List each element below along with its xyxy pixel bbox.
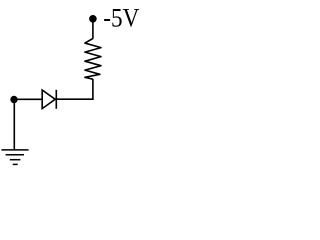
resistor R (zigzag) bbox=[85, 39, 101, 80]
wire: resistor bottom, down and left to diode cathode bbox=[57, 79, 93, 99]
node dot: junction at left bbox=[10, 96, 17, 103]
wire: left node down to ground bbox=[13, 99, 15, 149]
wire: left node to diode anode bbox=[14, 98, 42, 100]
wire: supply dot to resistor top bbox=[92, 21, 94, 39]
diode D (cathode bar) bbox=[55, 90, 57, 109]
ground symbol bbox=[1, 150, 28, 165]
svg-text:-5V: -5V bbox=[103, 4, 139, 33]
node dot: -5V supply terminal bbox=[89, 15, 97, 23]
diode D (anode triangle) bbox=[42, 90, 55, 109]
